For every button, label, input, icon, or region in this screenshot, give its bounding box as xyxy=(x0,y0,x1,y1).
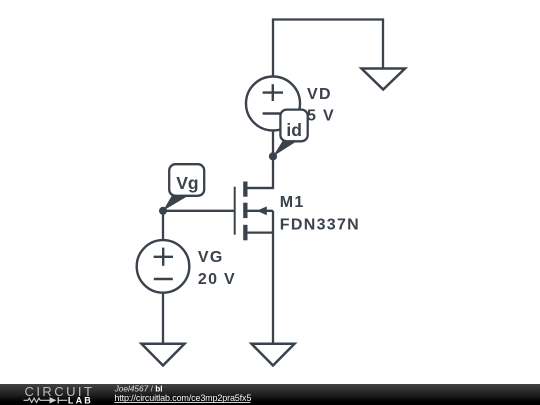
label VG value xyxy=(198,249,236,288)
wire node to MOSFET drain xyxy=(247,157,273,189)
svg-text:VD: VD xyxy=(307,86,332,103)
label VD value xyxy=(307,86,335,125)
CircuitLab logo diode xyxy=(50,397,68,403)
svg-text:LAB: LAB xyxy=(68,395,93,405)
voltage source VD xyxy=(246,77,300,131)
svg-text:FDN337N: FDN337N xyxy=(280,217,360,234)
wire VD bottom to node xyxy=(272,131,274,157)
svg-text:20 V: 20 V xyxy=(198,271,236,288)
ground G2 bottom left xyxy=(142,344,185,366)
wire node to VG top xyxy=(162,211,164,241)
ground G1 top right xyxy=(362,69,406,90)
wire MOSFET source down to ground xyxy=(272,211,274,344)
probe Vg callout xyxy=(163,164,204,211)
CircuitLab logo resistor xyxy=(24,398,50,402)
svg-text:Vg: Vg xyxy=(176,173,198,193)
probe id callout xyxy=(273,110,308,157)
wire top loop from VD to ground xyxy=(273,20,383,78)
node A gate junction dot xyxy=(159,207,167,215)
svg-text:VG: VG xyxy=(198,249,224,266)
svg-text:http://circuitlab.com/ce3mp2pr: http://circuitlab.com/ce3mp2pra5fx5 xyxy=(114,393,251,403)
svg-text:Joel4567 / bl: Joel4567 / bl xyxy=(114,384,163,394)
voltage source VG xyxy=(137,240,190,293)
attribution url underline xyxy=(114,401,250,403)
svg-text:5 V: 5 V xyxy=(307,108,335,125)
CircuitLab logo wordmark xyxy=(25,384,95,405)
wire VG bottom to ground xyxy=(162,293,164,344)
wire gate from node to MOSFET xyxy=(163,210,234,212)
label M1 FDN337N xyxy=(280,194,360,233)
svg-text:M1: M1 xyxy=(280,194,305,211)
ground G3 bottom right xyxy=(252,344,295,366)
watermark bar xyxy=(0,384,540,405)
svg-text:id: id xyxy=(286,120,302,140)
node B drain junction dot xyxy=(269,152,277,160)
transistor M1 FDN337N nmos xyxy=(235,182,273,241)
